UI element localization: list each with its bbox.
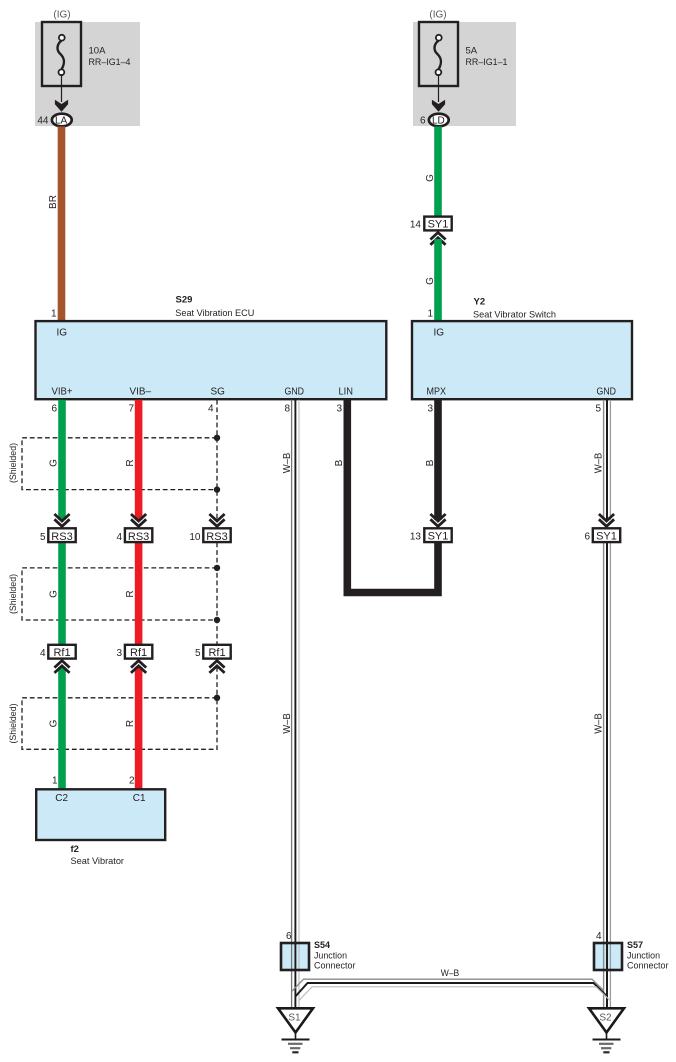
pin numbers 1 2 of f2 [52, 776, 135, 787]
svg-text:(Shielded): (Shielded) [8, 704, 19, 744]
svg-text:Rf1: Rf1 [208, 647, 225, 659]
svg-text:6: 6 [286, 931, 292, 942]
svg-text:VIB–: VIB– [130, 387, 152, 398]
connector LA pin 44 [37, 114, 71, 127]
chevron below Rf1 pin 3 (pointing up) [131, 661, 146, 673]
svg-text:S1: S1 [288, 1013, 301, 1024]
svg-text:3: 3 [336, 404, 342, 415]
svg-text:10A: 10A [89, 45, 107, 56]
wire G VIB+ segment 3 [58, 667, 66, 790]
svg-text:R: R [125, 720, 136, 727]
pin 1 of S29 [51, 308, 57, 319]
wire G VIB+ segment 1 [58, 400, 66, 520]
svg-text:4: 4 [208, 404, 214, 415]
ECU S29 title [175, 295, 254, 320]
chevron above SY1 pin 6 (pointing down) [599, 514, 614, 526]
svg-text:S57: S57 [627, 940, 643, 950]
svg-text:VIB+: VIB+ [52, 387, 73, 398]
svg-text:Seat Vibrator Switch: Seat Vibrator Switch [473, 310, 556, 321]
svg-text:7: 7 [128, 404, 134, 415]
wire B labels [334, 459, 436, 466]
wire W-B from S29 GND pin 8 to ground S1 (three-stripe) [292, 400, 299, 1008]
svg-text:5: 5 [40, 532, 46, 543]
connector Rf1 pin 3 [116, 645, 152, 659]
wire W-B bottom horizontal run S1 to S2 [292, 979, 610, 1001]
chevron below SY1 pin 14 (pointing up) [430, 233, 445, 245]
svg-text:4: 4 [40, 648, 46, 659]
pin 6 of S54 [286, 931, 292, 942]
svg-text:SY1: SY1 [428, 218, 449, 230]
wire label G upper [425, 174, 436, 182]
svg-text:6: 6 [584, 532, 590, 543]
svg-text:8: 8 [284, 404, 290, 415]
chevron below Rf1 pin 5 (pointing up) [209, 661, 224, 673]
svg-text:Seat Vibration ECU: Seat Vibration ECU [175, 308, 254, 319]
seat vibrator f2 title [71, 844, 125, 867]
svg-text:BR: BR [48, 195, 59, 209]
svg-text:5A: 5A [466, 45, 478, 56]
svg-text:C2: C2 [55, 793, 68, 804]
svg-text:5: 5 [595, 404, 601, 415]
svg-text:C1: C1 [133, 793, 146, 804]
svg-text:LD: LD [432, 115, 445, 126]
svg-text:10: 10 [189, 532, 201, 543]
svg-text:SY1: SY1 [428, 530, 449, 542]
svg-text:W–B: W–B [282, 452, 293, 473]
fuse block F1 (10A RR-IG1-4) background [35, 22, 140, 126]
svg-text:Rf1: Rf1 [53, 647, 70, 659]
svg-text:4: 4 [596, 931, 602, 942]
svg-text:Connector: Connector [627, 961, 669, 972]
svg-text:(IG): (IG) [53, 10, 70, 21]
svg-text:RS3: RS3 [128, 531, 149, 543]
wire fuse F1 tail with arrowhead [55, 74, 68, 112]
svg-text:Seat Vibrator: Seat Vibrator [71, 856, 125, 867]
chevron above RS3 pin 5 (pointing down) [54, 514, 69, 526]
connector RS3 pin 4 [116, 528, 152, 543]
ECU S29 box [36, 321, 387, 399]
wire W-B from SY1 pin 6 to ground S2 [604, 543, 611, 1009]
pin 1 of Y2 [427, 308, 433, 319]
connector Rf1 pin 5 [195, 645, 231, 659]
ground S2 earth symbol [593, 1033, 621, 1053]
svg-text:RS3: RS3 [206, 531, 227, 543]
wire W-B from Y2 GND pin 5 to connector SY1 pin 6 [604, 400, 611, 520]
fuse F1 symbol 10A [42, 22, 81, 86]
svg-text:6: 6 [420, 116, 426, 127]
connector RS3 pin 10 [189, 528, 230, 543]
svg-text:6: 6 [51, 404, 57, 415]
net (IG) label right [429, 10, 446, 21]
seat vibrator f2 box [36, 789, 165, 840]
svg-text:4: 4 [116, 532, 122, 543]
svg-text:B: B [425, 459, 436, 466]
svg-text:5: 5 [195, 648, 201, 659]
svg-text:S2: S2 [599, 1013, 612, 1024]
svg-text:(Shielded): (Shielded) [8, 574, 19, 614]
svg-text:(IG): (IG) [429, 10, 446, 21]
wire B LIN-MPX loop [347, 400, 438, 593]
chevron above RS3 pin 10 (pointing down) [209, 514, 224, 526]
wire R labels on VIB- [125, 459, 136, 727]
wire fuse F2 tail with arrowhead [432, 74, 445, 112]
connector SY1 pin 6 [584, 528, 620, 542]
chevron below Rf1 pin 4 (pointing up) [54, 661, 69, 673]
chevron above RS3 pin 4 (pointing down) [131, 514, 146, 526]
junction connector S54 title [314, 940, 356, 972]
connector SY1 pin 14 [410, 217, 452, 231]
svg-text:IG: IG [434, 328, 445, 339]
svg-text:R: R [125, 459, 136, 466]
ground S1 earth symbol [282, 1033, 310, 1053]
wire G VIB+ segment 2 [58, 543, 66, 646]
svg-text:GND: GND [597, 387, 617, 398]
svg-text:IG: IG [57, 328, 68, 339]
svg-text:Y2: Y2 [474, 297, 486, 308]
svg-text:G: G [425, 174, 436, 182]
svg-text:f2: f2 [71, 844, 79, 855]
fuse F1 value label "10A RR-IG1-4" [89, 45, 131, 67]
svg-text:W–B: W–B [441, 968, 460, 979]
svg-text:RR–IG1–1: RR–IG1–1 [466, 57, 508, 68]
svg-text:1: 1 [427, 308, 433, 319]
wire R VIB- segment 1 [135, 400, 143, 520]
svg-text:Connector: Connector [314, 961, 356, 972]
svg-text:G: G [49, 590, 60, 598]
junction connector S54 border [281, 943, 309, 970]
svg-text:LIN: LIN [339, 387, 354, 398]
svg-text:W–B: W–B [594, 452, 605, 473]
shield box 2 (Shielded) [8, 568, 217, 620]
svg-text:R: R [125, 590, 136, 597]
svg-text:RS3: RS3 [51, 531, 72, 543]
chevron above SY1 pin 13 (pointing down) [430, 514, 445, 526]
ground S2 triangle [589, 1008, 624, 1032]
svg-text:G: G [425, 277, 436, 285]
connector LD pin 6 [420, 114, 449, 127]
svg-text:B: B [334, 459, 345, 466]
wire G from SY1 to Y2 pin 1 [434, 239, 442, 322]
svg-text:S29: S29 [176, 295, 193, 306]
wire label BR [48, 195, 59, 209]
svg-text:Rf1: Rf1 [130, 647, 147, 659]
svg-text:(Shielded): (Shielded) [8, 443, 19, 483]
svg-text:RR–IG1–4: RR–IG1–4 [89, 57, 131, 68]
shield box 3 (Shielded) [8, 698, 217, 750]
net (IG) label left [53, 10, 70, 21]
svg-text:S54: S54 [314, 940, 330, 950]
fuse F2 value label "5A RR-IG1-1" [466, 45, 508, 67]
connector RS3 pin 5 [40, 528, 76, 543]
svg-text:SY1: SY1 [596, 530, 617, 542]
junction dots on shield net [214, 435, 220, 701]
wire W-B label right lower [594, 713, 605, 734]
wire SG shield drain (dashed) segments [216, 400, 218, 698]
wire R VIB- segment 2 [135, 543, 143, 646]
junction connector S57 box fill [594, 943, 622, 970]
wire G from LD to connector SY1 pin 14 [434, 126, 442, 216]
svg-text:1: 1 [52, 776, 58, 787]
ground S1 triangle [278, 1008, 313, 1032]
wire W-B labels left run [282, 452, 293, 733]
junction connector S57 title [627, 940, 669, 972]
S29 bottom pin numbers 6 7 4 8 3 [51, 404, 342, 415]
fuse block F2 (5A RR-IG1-1) background [413, 22, 516, 126]
wire G labels on VIB+ [49, 459, 60, 728]
svg-text:2: 2 [129, 776, 135, 787]
connector Rf1 pin 4 [40, 645, 76, 659]
switch Y2 box [412, 321, 632, 399]
svg-text:SG: SG [211, 387, 226, 398]
fuse F2 symbol 5A [419, 22, 458, 86]
wire B MPX upper segment [434, 400, 442, 520]
svg-text:1: 1 [51, 308, 57, 319]
wire W-B label right upper [594, 452, 605, 473]
svg-text:14: 14 [410, 220, 422, 231]
svg-text:3: 3 [116, 648, 122, 659]
wire W-B bottom label [441, 968, 460, 979]
wire label G lower [425, 277, 436, 285]
junction connector S57 border [594, 943, 622, 970]
svg-text:G: G [49, 719, 60, 727]
svg-text:3: 3 [427, 404, 433, 415]
wire R VIB- segment 3 [135, 667, 143, 790]
connector SY1 pin 13 [410, 528, 452, 542]
svg-text:MPX: MPX [427, 387, 447, 398]
svg-text:GND: GND [285, 387, 305, 398]
shield box 1 (Shielded) [8, 438, 217, 490]
svg-text:G: G [49, 459, 60, 467]
svg-text:W–B: W–B [282, 713, 293, 734]
svg-text:W–B: W–B [594, 713, 605, 734]
wire BR from LA to S29 pin 1 [58, 126, 66, 320]
pin 4 of S57 [596, 931, 602, 942]
svg-text:LA: LA [55, 115, 68, 126]
svg-text:13: 13 [410, 532, 422, 543]
junction connector S54 box fill [281, 943, 309, 970]
switch Y2 title [473, 297, 556, 321]
Y2 bottom pin numbers 3 5 [427, 404, 601, 415]
svg-text:44: 44 [37, 116, 49, 127]
